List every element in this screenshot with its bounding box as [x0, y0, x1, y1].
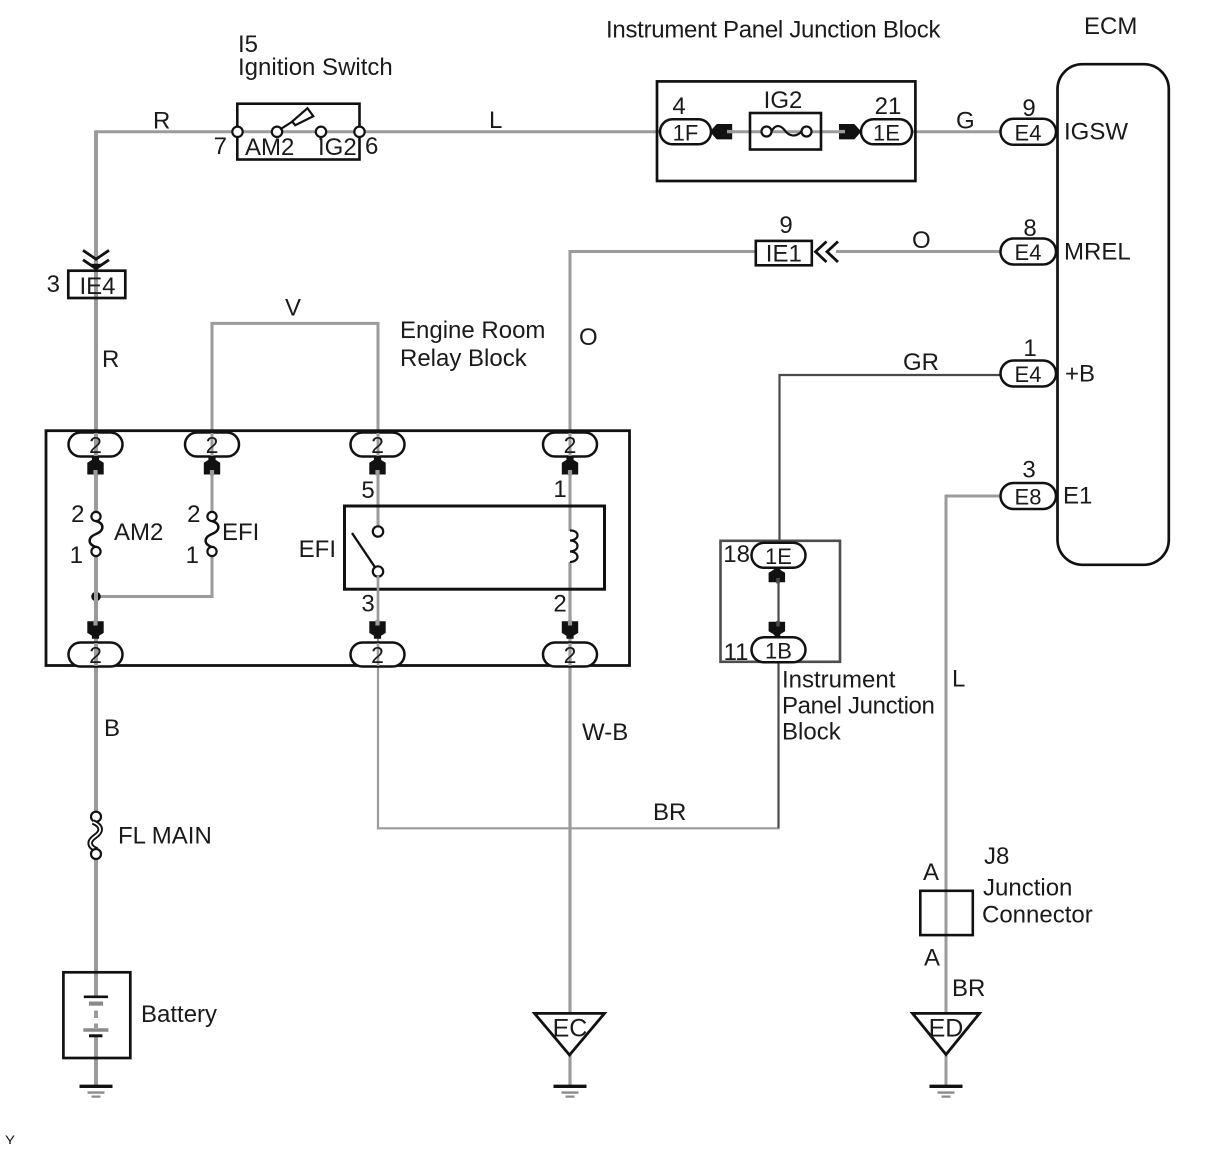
svg-text:2: 2: [187, 501, 200, 528]
up arrow EFI fuse column: [204, 457, 220, 476]
connector E8 pin 3 E1: [1001, 457, 1093, 510]
svg-text:9: 9: [779, 212, 792, 239]
connector 1F pin 4: [660, 93, 711, 146]
svg-text:Relay Block: Relay Block: [400, 345, 528, 372]
svg-text:O: O: [912, 227, 931, 254]
svg-text:1B: 1B: [765, 639, 792, 664]
net label GR: [903, 349, 939, 376]
wire relay contact pin3 column inside box: [377, 576, 380, 621]
wire vertical R column x96 down to fuse AM2: [94, 130, 98, 513]
instrument panel junction block (top): [606, 17, 941, 182]
svg-text:EC: EC: [553, 1015, 588, 1043]
svg-text:3: 3: [47, 271, 60, 298]
svg-text:R: R: [153, 108, 170, 135]
svg-text:L: L: [489, 107, 502, 134]
svg-text:V: V: [285, 295, 301, 322]
wire relay coil column upper segment: [569, 475, 572, 531]
svg-text:AM2: AM2: [114, 519, 163, 546]
arrow into 1F: [710, 124, 734, 139]
instrument panel junction block (lower): [721, 541, 935, 746]
net label R (column): [102, 346, 119, 373]
svg-text:BR: BR: [653, 799, 686, 826]
svg-text:7: 7: [214, 133, 227, 160]
ground EC: [535, 1013, 605, 1055]
page marker Y: [5, 1133, 15, 1149]
svg-text:1: 1: [186, 542, 199, 569]
svg-text:MREL: MREL: [1064, 239, 1131, 266]
up arrow relay coil column: [553, 457, 578, 503]
svg-text:21: 21: [875, 93, 902, 120]
svg-text:5: 5: [361, 477, 374, 504]
svg-text:1: 1: [553, 476, 566, 503]
svg-text:G: G: [956, 108, 975, 135]
connector E4 pin 9 IGSW: [1001, 95, 1129, 146]
connector IE1 pin 9: [756, 212, 812, 268]
net label O (horizontal): [912, 227, 931, 254]
svg-text:EFI: EFI: [299, 536, 336, 563]
connector IE4 pin 3: [47, 271, 126, 300]
junction dot: [91, 592, 101, 602]
engine room relay block: [46, 317, 630, 666]
svg-text:2: 2: [206, 432, 219, 458]
connector E4 pin 1 +B: [1001, 335, 1096, 388]
svg-text:1: 1: [1023, 335, 1036, 362]
svg-text:BR: BR: [952, 975, 985, 1002]
svg-text:8: 8: [1023, 215, 1036, 242]
chevron arrows at IE1: [816, 242, 839, 263]
svg-text:IGSW: IGSW: [1064, 119, 1128, 146]
svg-text:2: 2: [71, 501, 84, 528]
wire FL MAIN to battery: [94, 857, 98, 997]
svg-text:+B: +B: [1065, 361, 1095, 388]
ground symbol below ED: [930, 1086, 963, 1096]
fuse IG2: [750, 87, 821, 150]
wire AM2 fuse to bottom connector and battery feed B: [94, 555, 98, 814]
relay block bottom connector 2 (coil column): [543, 642, 597, 668]
net label L (lower): [952, 666, 965, 693]
connector 1E pin 18: [723, 541, 805, 569]
svg-text:R: R: [102, 346, 119, 373]
svg-text:EFI: EFI: [222, 519, 259, 546]
relay EFI box: [299, 506, 605, 589]
connector E4 pin 8 MREL: [1001, 215, 1131, 266]
svg-text:GR: GR: [903, 349, 939, 376]
svg-text:J8: J8: [984, 843, 1009, 870]
net label A (above J8): [923, 859, 939, 886]
wire battery internal dashes: [94, 1011, 98, 1029]
svg-text:IG2: IG2: [764, 87, 803, 114]
svg-text:2: 2: [371, 642, 384, 668]
down arrow relay coil column: [553, 591, 578, 639]
fuse AM2: [70, 501, 164, 569]
svg-text:2: 2: [89, 642, 102, 668]
net label BR (left): [653, 799, 686, 826]
svg-text:ECM: ECM: [1084, 13, 1137, 40]
up arrow AM2 column: [87, 457, 103, 476]
relay block top connector 2 (relay coil column pin 1): [543, 432, 597, 458]
svg-text:ED: ED: [929, 1015, 964, 1043]
chevron arrows into IE4: [83, 250, 109, 270]
svg-text:Connector: Connector: [982, 902, 1093, 929]
svg-text:1F: 1F: [673, 121, 699, 146]
battery: [63, 972, 217, 1058]
svg-text:3: 3: [361, 591, 374, 618]
svg-text:AM2: AM2: [245, 134, 294, 161]
wire W-B from relay block pin 2 to ground EC: [568, 562, 571, 1013]
svg-text:2: 2: [89, 432, 102, 458]
wire V from EFI fuse to EFI relay pin 5: [212, 323, 378, 526]
svg-text:4: 4: [672, 93, 685, 120]
svg-text:Y: Y: [5, 1133, 15, 1145]
svg-text:A: A: [923, 859, 939, 886]
net label L: [489, 107, 502, 134]
ignition switch I5: [237, 31, 392, 160]
svg-text:B: B: [104, 715, 120, 742]
svg-text:E4: E4: [1015, 121, 1042, 146]
svg-text:FL MAIN: FL MAIN: [118, 823, 212, 850]
relay block bottom connector 2 (AM2 column): [69, 642, 123, 668]
net label A (below J8): [924, 945, 940, 972]
svg-text:E4: E4: [1015, 362, 1042, 387]
wire EFI relay contact pin 3 down to W-B junction: [378, 576, 780, 828]
wire battery negative to ground: [94, 1036, 98, 1086]
wire through ignition switch: [238, 130, 360, 133]
ignition switch lever: [280, 108, 313, 129]
wire O from relay block to IE1: [570, 252, 755, 514]
ground ED: [913, 1013, 980, 1054]
relay block top connector 2 (AM2 column): [69, 432, 123, 458]
svg-text:W-B: W-B: [582, 719, 628, 746]
svg-text:Instrument: Instrument: [782, 667, 896, 694]
ground below battery: [80, 1086, 113, 1096]
relay EFI coil: [570, 530, 578, 562]
relay block top connector 2 (EFI fuse column): [185, 432, 239, 458]
svg-text:Engine Room: Engine Room: [400, 317, 545, 344]
wire GR from ECM +B to instrument panel junction block 1E: [780, 375, 1003, 541]
net label W-B: [582, 719, 628, 746]
ECM: [1058, 13, 1169, 565]
down arrow AM2 column: [87, 620, 103, 639]
down arrow inside lower junction block: [769, 621, 786, 637]
relay EFI contact: [352, 526, 383, 576]
arrow into 1E: [839, 124, 862, 139]
net label BR (right): [952, 975, 985, 1002]
wire through instrument panel junction block to ECM IGSW: [659, 130, 1002, 133]
connector 1B pin 11: [724, 637, 806, 666]
svg-text:Block: Block: [782, 719, 842, 746]
svg-text:O: O: [579, 324, 598, 351]
svg-text:Instrument Panel Junction Bloc: Instrument Panel Junction Block: [606, 17, 941, 44]
wire R from node to ignition switch pin 7: [96, 130, 238, 133]
ignition switch pin 7 terminal: [214, 127, 243, 160]
svg-text:2: 2: [553, 591, 566, 618]
svg-text:IE4: IE4: [79, 273, 115, 300]
svg-text:E8: E8: [1015, 485, 1042, 510]
svg-text:18: 18: [723, 541, 750, 568]
svg-text:IE1: IE1: [766, 241, 802, 268]
up arrow inside lower junction block: [769, 567, 786, 584]
net label V: [285, 295, 301, 322]
ignition switch contact IG2: [316, 127, 357, 161]
svg-text:L: L: [952, 666, 965, 693]
net label O (vertical): [579, 324, 598, 351]
svg-text:Ignition Switch: Ignition Switch: [238, 54, 393, 81]
wire ED triangle to ground: [945, 1054, 948, 1086]
net label R (top): [153, 108, 170, 135]
svg-text:A: A: [924, 945, 940, 972]
wire BR below instrument panel junction block: [777, 663, 779, 828]
wire junction jog to AM2 column: [96, 595, 214, 598]
wire EC triangle to ground: [568, 1054, 571, 1086]
net label B: [104, 715, 120, 742]
net label G: [956, 108, 975, 135]
wire inside instrument panel junction block 1E to 1B: [777, 566, 779, 640]
ignition switch pin 6 terminal: [354, 127, 378, 160]
svg-text:1E: 1E: [873, 121, 900, 146]
ignition switch contact AM2: [245, 127, 294, 161]
svg-text:2: 2: [564, 642, 577, 668]
wire L ignition switch to junction block: [360, 130, 659, 133]
svg-text:3: 3: [1022, 457, 1035, 484]
down arrow relay contact column: [361, 591, 385, 639]
svg-text:1E: 1E: [765, 544, 792, 569]
svg-text:2: 2: [564, 432, 577, 458]
wire EFI fuse column inside relay block: [211, 475, 214, 513]
svg-text:11: 11: [724, 639, 749, 666]
relay block bottom connector 2 (contact column): [351, 642, 405, 668]
svg-text:Panel Junction: Panel Junction: [782, 693, 935, 720]
svg-text:1: 1: [70, 542, 83, 569]
up arrow relay contact column: [361, 457, 385, 504]
fuse EFI: [186, 501, 260, 569]
svg-text:Battery: Battery: [141, 1001, 217, 1028]
svg-text:IG2: IG2: [318, 134, 357, 161]
svg-text:Junction: Junction: [983, 875, 1072, 902]
wire O from IE1 to ECM MREL: [836, 250, 1002, 253]
junction connector J8: [920, 843, 1092, 935]
wire L from ECM E1 down to J8: [946, 496, 1002, 1013]
svg-text:E4: E4: [1015, 240, 1042, 265]
svg-text:6: 6: [365, 133, 378, 160]
relay block top connector 2 (relay contact column pin 5): [351, 432, 405, 458]
fusible link FL MAIN: [90, 812, 212, 859]
svg-text:E1: E1: [1063, 483, 1092, 510]
wire EFI fuse lower segment to junction: [211, 555, 214, 597]
ground symbol below EC: [554, 1086, 587, 1096]
connector 1E pin 21: [861, 93, 912, 146]
svg-text:9: 9: [1022, 95, 1035, 122]
svg-text:2: 2: [371, 432, 384, 458]
